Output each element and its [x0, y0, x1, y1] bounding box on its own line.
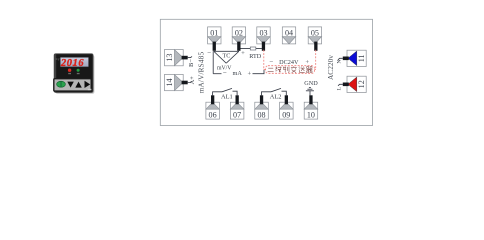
wire stub 14: [188, 81, 192, 82]
svg-text:07: 07: [233, 110, 241, 119]
svg-text:GND: GND: [304, 80, 318, 87]
terminal 11: [343, 50, 366, 66]
svg-text:10: 10: [307, 110, 315, 119]
svg-text:mA: mA: [233, 70, 243, 77]
terminal 12: [343, 76, 366, 92]
terminal 07: [230, 95, 244, 119]
label two-wire transmitter (Chinese): [268, 66, 313, 72]
transmitter dashed box: [266, 66, 315, 74]
dashed wire 05 to transmitter: [315, 50, 317, 70]
svg-text:+: +: [241, 50, 245, 57]
wire 01 common down: [212, 51, 214, 73]
wire AL1 contact: [213, 88, 238, 95]
terminal 02: [232, 27, 245, 51]
LED red: [68, 69, 71, 72]
dashed link left: [264, 69, 266, 71]
svg-text:05: 05: [311, 28, 319, 37]
svg-text:AC220v: AC220v: [326, 55, 335, 80]
svg-text:TC: TC: [223, 53, 231, 60]
terminal 04: [282, 27, 295, 44]
wire RTD line: [241, 47, 263, 49]
svg-text:08: 08: [257, 110, 265, 119]
wire mV diagonal right: [226, 51, 239, 63]
svg-text:04: 04: [285, 28, 293, 37]
svg-text:13: 13: [165, 54, 174, 62]
svg-text:RTD: RTD: [249, 53, 262, 60]
svg-text:03: 03: [259, 28, 267, 37]
svg-text:DC24V: DC24V: [279, 59, 299, 66]
device photo: controller front panel: [54, 54, 95, 94]
svg-text:N: N: [337, 60, 343, 64]
up button: [75, 82, 82, 88]
svg-text:02: 02: [235, 28, 243, 37]
wire mA line right: [253, 70, 265, 74]
LED green: [77, 69, 80, 72]
down button: [67, 82, 74, 88]
svg-text:+: +: [247, 70, 251, 77]
svg-text:mA/V/RS485: mA/V/RS485: [197, 52, 205, 94]
svg-text:2016: 2016: [60, 58, 84, 69]
svg-text:14: 14: [165, 78, 174, 86]
svg-text:A+: A+: [189, 76, 196, 85]
svg-text:L: L: [336, 86, 342, 90]
terminal 03: [257, 27, 270, 51]
svg-text:06: 06: [209, 110, 217, 119]
earth symbol: [306, 88, 314, 96]
svg-text:−: −: [207, 49, 211, 57]
device shadow: [56, 55, 95, 94]
svg-text:−: −: [223, 69, 227, 77]
green button: [57, 81, 66, 87]
wire stub 11: [338, 58, 343, 60]
svg-text:AL2: AL2: [270, 94, 282, 101]
LED labels: [68, 73, 71, 74]
terminal 06: [206, 95, 220, 119]
terminal 01: [208, 27, 221, 51]
wire TC line: [214, 50, 239, 52]
terminal 05: [308, 27, 321, 51]
terminal 08: [255, 95, 268, 119]
terminal 14: [165, 74, 188, 90]
device bezel: [54, 54, 93, 93]
wire AL2 contact: [262, 88, 287, 95]
svg-text:09: 09: [282, 110, 290, 119]
wiring diagram outer border: [160, 19, 372, 125]
dashed link right: [314, 69, 316, 71]
right button: [85, 81, 91, 88]
terminal 09: [280, 95, 294, 119]
wire mA line left: [213, 73, 221, 75]
svg-text:AL1: AL1: [221, 94, 233, 101]
terminal 13: [165, 50, 188, 66]
svg-text:11: 11: [357, 54, 366, 62]
wire mV diagonal left: [214, 51, 226, 63]
svg-text:B−: B−: [188, 59, 195, 67]
RTD sensor body: [250, 47, 256, 50]
terminal 10: [304, 95, 318, 119]
svg-text:−: −: [269, 58, 273, 66]
svg-text:01: 01: [210, 28, 218, 37]
button strip: [54, 79, 91, 91]
svg-text:12: 12: [357, 80, 366, 88]
wire stub 12: [338, 84, 343, 86]
svg-text:+: +: [305, 59, 309, 66]
svg-text:Cy: Cy: [56, 57, 60, 61]
dashed wire 03 to transmitter: [263, 50, 265, 70]
wire stub 13: [188, 56, 192, 57]
brand logo: [88, 89, 92, 90]
display window: [60, 57, 88, 67]
